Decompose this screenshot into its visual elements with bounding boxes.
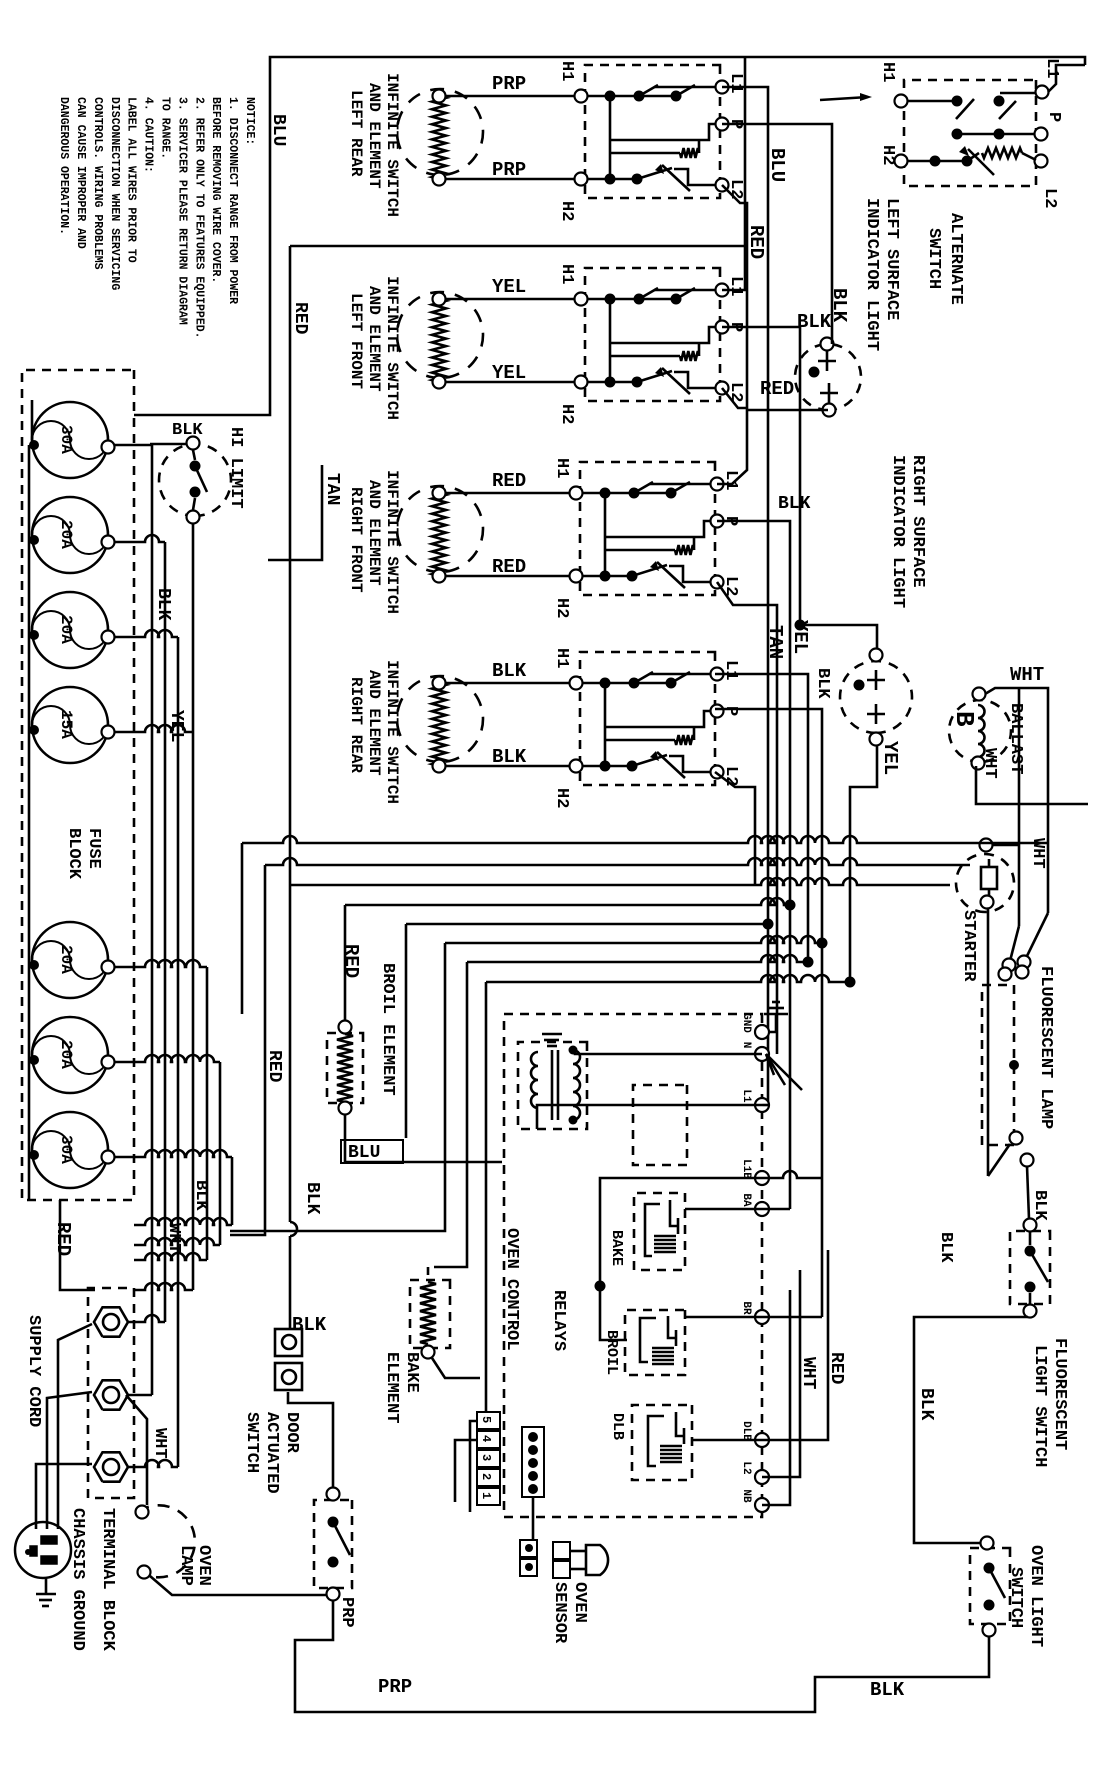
svg-text:RIGHT SURFACE: RIGHT SURFACE — [908, 455, 927, 588]
svg-text:H1: H1 — [552, 458, 571, 478]
svg-text:BAKE: BAKE — [608, 1230, 625, 1266]
svg-text:DLB: DLB — [740, 1421, 752, 1441]
label BALLAST — [1006, 703, 1025, 774]
label BLK right fuse — [191, 1180, 210, 1211]
label H2 right rear — [552, 788, 571, 808]
fuse block box — [22, 370, 134, 1200]
wire lamp right to switch — [988, 909, 1010, 1176]
label YEL right — [789, 620, 811, 654]
svg-text:WHT: WHT — [980, 748, 999, 779]
svg-text:BLK: BLK — [1030, 1190, 1049, 1221]
label PRP wire 2 — [492, 159, 526, 181]
label L2 supply — [1040, 188, 1059, 208]
svg-text:RIGHT REAR: RIGHT REAR — [347, 677, 365, 773]
svg-text:DANGEROUS OPERATION.: DANGEROUS OPERATION. — [57, 97, 70, 235]
text CHASSIS GROUND — [68, 1508, 87, 1651]
svg-text:BLK: BLK — [936, 1232, 955, 1263]
infinite switch left rear — [575, 65, 729, 198]
label WHT ballast right — [980, 748, 999, 779]
text FLUORESCENT LIGHT SWITCH — [1030, 1338, 1069, 1467]
wire fuse4 right — [134, 732, 193, 1290]
wire right front P riser — [717, 521, 790, 1209]
svg-text:BLK: BLK — [916, 1388, 936, 1421]
wire left front L2 — [722, 388, 747, 408]
text NOTICE block — [57, 97, 256, 339]
label L1 left rear — [726, 73, 745, 93]
svg-text:AND ELEMENT: AND ELEMENT — [365, 480, 383, 586]
svg-text:BEFORE REMOVING WIRE COVER.: BEFORE REMOVING WIRE COVER. — [209, 97, 222, 283]
wire BLK bus from left rear P — [722, 124, 832, 344]
svg-text:INDICATOR LIGHT: INDICATOR LIGHT — [862, 198, 881, 351]
label BLK fl2 — [936, 1232, 955, 1263]
oven control box — [504, 1014, 762, 1517]
text TERMINAL BLOCK — [98, 1508, 117, 1652]
wire H1-element right rear — [445, 682, 570, 685]
svg-text:BLK: BLK — [302, 1182, 322, 1215]
wire L1 pin internal — [537, 1105, 762, 1129]
svg-text:BLK: BLK — [813, 668, 832, 699]
wire fuse7 up — [114, 1150, 232, 1225]
oven sensor — [553, 1542, 608, 1578]
fuse 20A at x 535 — [29, 497, 115, 573]
wire bake left — [427, 1267, 430, 1275]
wire L1 pin riser — [762, 1104, 768, 1107]
svg-text:BLK: BLK — [292, 1314, 327, 1336]
label H2 right front — [552, 598, 571, 618]
svg-text:RED: RED — [340, 944, 362, 978]
svg-text:L2: L2 — [1040, 188, 1059, 208]
svg-text:30A: 30A — [57, 425, 75, 454]
svg-text:BAKE: BAKE — [402, 1352, 421, 1393]
label RED left rear — [745, 225, 767, 259]
wire fuse5 up — [114, 960, 207, 1260]
wire L1B riser — [762, 1171, 822, 1178]
svg-text:INFINITE SWITCH: INFINITE SWITCH — [383, 73, 401, 217]
text BAKE ELEMENT — [382, 1352, 421, 1423]
label H1 left rear — [557, 61, 576, 81]
svg-text:DOOR: DOOR — [282, 1412, 301, 1454]
wire left light RED down — [747, 409, 828, 412]
label STARTER — [959, 910, 978, 982]
wire plug to lug3 — [36, 1464, 92, 1529]
svg-text:NOTICE:: NOTICE: — [243, 97, 256, 145]
pin NB oven control — [740, 1489, 769, 1512]
wire left front L1 up — [722, 57, 745, 290]
label H2 left front — [557, 404, 576, 424]
relay BAKE — [634, 1193, 685, 1270]
ballast — [949, 688, 1011, 770]
label L1 right rear — [721, 660, 740, 680]
text INFINITE SWITCH AND ELEMENT RIGHT FRONT — [347, 470, 401, 614]
oven lamp — [136, 1505, 195, 1578]
text LEFT SURFACE INDICATOR LIGHT — [862, 198, 901, 351]
svg-text:CAN CAUSE IMPROPER AND: CAN CAUSE IMPROPER AND — [74, 97, 87, 249]
wire BLU bus — [722, 87, 768, 1105]
wire oven lamp right — [150, 1576, 327, 1595]
label BLK door — [292, 1314, 327, 1336]
fuse 20A at x 1055 — [29, 1017, 115, 1093]
svg-text:BROIL: BROIL — [603, 1330, 620, 1375]
label RED fuse block — [52, 1222, 74, 1256]
hi limit — [159, 437, 231, 524]
svg-text:RED: RED — [492, 470, 526, 492]
wire NB riser — [762, 1290, 790, 1505]
wire PRP door — [295, 1600, 333, 1700]
svg-text:OVEN LIGHT: OVEN LIGHT — [1026, 1545, 1045, 1647]
label L2 right front — [721, 576, 740, 596]
label YEL left col — [166, 710, 186, 742]
label BLU — [766, 148, 788, 182]
svg-text:BA: BA — [740, 1193, 752, 1207]
svg-text:4: 4 — [479, 1435, 493, 1442]
pin L2 oven control — [740, 1461, 769, 1484]
wire RED bus from left rear L2 — [722, 185, 747, 410]
svg-text:RED: RED — [492, 556, 526, 578]
svg-text:20A: 20A — [57, 1040, 75, 1069]
label RED dlb — [826, 1352, 846, 1385]
wire bake right — [432, 1358, 480, 1378]
wire starter to lamp — [993, 844, 1019, 847]
wire YEL bus left front — [722, 327, 800, 625]
svg-text:BLOCK: BLOCK — [64, 828, 83, 880]
svg-text:P: P — [1044, 112, 1063, 122]
transformer oven control — [518, 1042, 587, 1129]
label TAN right — [764, 625, 786, 659]
connector 2pin — [520, 1540, 537, 1576]
fuse 20A at x 960 — [29, 922, 115, 998]
svg-text:H2: H2 — [557, 201, 576, 221]
label BLK bus C — [302, 1182, 322, 1215]
svg-text:P: P — [721, 706, 740, 716]
svg-text:LAMP: LAMP — [176, 1545, 195, 1586]
bake element — [410, 1280, 450, 1359]
svg-text:ALTERNATE: ALTERNATE — [946, 213, 965, 305]
wire L1 main line — [134, 57, 1085, 415]
svg-text:OVEN CONTROL: OVEN CONTROL — [502, 1228, 521, 1350]
label TAN hi limit — [322, 473, 342, 505]
wire DLB internal — [692, 1439, 762, 1442]
label DLB — [609, 1413, 626, 1440]
svg-text:L1: L1 — [726, 276, 745, 296]
svg-text:LIGHT SWITCH: LIGHT SWITCH — [1030, 1345, 1049, 1467]
wire fuse2 up — [114, 535, 165, 1322]
svg-text:GND: GND — [740, 1013, 752, 1033]
label P right rear — [721, 706, 740, 716]
svg-text:TAN: TAN — [322, 473, 342, 505]
svg-text:OVEN: OVEN — [194, 1545, 213, 1586]
label BROIL — [603, 1330, 620, 1375]
pin BA oven control — [740, 1193, 769, 1216]
wire right light feed — [795, 620, 878, 650]
label YEL right light — [879, 741, 901, 775]
svg-text:L2: L2 — [726, 179, 745, 199]
element right front — [397, 486, 483, 583]
svg-text:SWITCH: SWITCH — [924, 228, 943, 289]
relay BROIL — [625, 1310, 685, 1375]
label PRP wire 1 — [492, 73, 526, 95]
wire lamp right 2 — [1027, 1166, 1029, 1219]
svg-text:L2: L2 — [740, 1461, 752, 1474]
svg-text:ELEMENT: ELEMENT — [382, 1352, 401, 1423]
door plunger B — [275, 1363, 302, 1390]
pin BR oven control — [740, 1301, 769, 1324]
wire fuse3 up — [114, 630, 178, 1467]
wire L1 supply entry — [1048, 65, 1085, 92]
wire right rear P riser — [715, 709, 822, 1317]
wire fuse bottom bus — [29, 400, 32, 1200]
svg-text:BALLAST: BALLAST — [1006, 703, 1025, 774]
text INFINITE SWITCH AND ELEMENT RIGHT REAR — [347, 660, 401, 804]
label WHT right fuse — [164, 1223, 183, 1254]
wire H2-element left rear — [445, 178, 575, 181]
svg-text:RED: RED — [826, 1352, 846, 1385]
label RED broil — [340, 944, 362, 978]
label BLK left light — [797, 311, 832, 333]
svg-text:H2: H2 — [557, 404, 576, 424]
svg-text:BLK: BLK — [172, 421, 203, 440]
wire H1-element right front — [445, 492, 570, 495]
svg-text:DLB: DLB — [609, 1413, 626, 1440]
label H1 right rear — [552, 648, 571, 668]
svg-text:BLK: BLK — [492, 746, 527, 768]
wire ballast right — [976, 766, 1088, 804]
svg-text:5: 5 — [479, 1416, 493, 1423]
text RELAYS — [549, 1290, 568, 1351]
wire oven light switch out — [295, 1636, 989, 1712]
svg-text:15A: 15A — [57, 710, 75, 739]
wire right rear L1 riser — [715, 674, 808, 962]
wire bus route F — [230, 936, 828, 1231]
wire door switch feed — [288, 1392, 333, 1487]
svg-text:TERMINAL BLOCK: TERMINAL BLOCK — [98, 1508, 117, 1652]
svg-text:FUSE: FUSE — [84, 828, 103, 869]
svg-text:LEFT FRONT: LEFT FRONT — [347, 293, 365, 389]
infinite switch left front — [575, 268, 729, 401]
svg-text:RED: RED — [264, 1050, 284, 1083]
wire bus route E — [406, 919, 774, 1139]
svg-text:HI LIMIT: HI LIMIT — [226, 427, 245, 509]
label WHT bus — [150, 1428, 169, 1459]
terminal lug 3 — [94, 1452, 128, 1481]
text OVEN LAMP — [176, 1545, 213, 1586]
label H2 alternate switch — [878, 145, 897, 165]
svg-text:DISCONNECTION WHEN SERVICING: DISCONNECTION WHEN SERVICING — [108, 97, 121, 290]
wire starter to lamp 2 — [987, 908, 988, 909]
label BLK hi limit — [172, 421, 203, 440]
svg-text:4. CAUTION:: 4. CAUTION: — [142, 97, 155, 173]
text FLUORESCENT LAMP — [1036, 966, 1055, 1129]
fuse 20A at x 630 — [29, 592, 115, 668]
label WHT l2 — [798, 1357, 818, 1390]
svg-text:YEL: YEL — [492, 276, 526, 298]
svg-text:TO RANGE.: TO RANGE. — [159, 97, 172, 159]
svg-text:PRP: PRP — [378, 1676, 412, 1698]
svg-text:WHT: WHT — [1010, 664, 1044, 686]
svg-text:RIGHT FRONT: RIGHT FRONT — [347, 487, 365, 593]
wire fuse1 up — [114, 445, 152, 1395]
svg-text:1: 1 — [479, 1492, 493, 1499]
svg-text:INDICATOR LIGHT: INDICATOR LIGHT — [888, 455, 907, 608]
svg-text:20A: 20A — [57, 945, 75, 974]
svg-text:3. SERVICER PLEASE RETURN DIAG: 3. SERVICER PLEASE RETURN DIAGRAM — [175, 97, 188, 325]
label RED left light — [760, 378, 794, 400]
svg-text:AND ELEMENT: AND ELEMENT — [365, 286, 383, 392]
wire connector plug out 1 — [470, 1421, 477, 1512]
svg-text:LEFT SURFACE: LEFT SURFACE — [882, 198, 901, 320]
wire H2-element right front — [445, 575, 570, 578]
svg-text:YEL: YEL — [492, 362, 526, 384]
svg-text:L1: L1 — [726, 73, 745, 93]
callout arrow to alternate switch — [820, 93, 872, 101]
text FUSE BLOCK — [64, 828, 103, 880]
svg-text:L2: L2 — [726, 382, 745, 402]
chassis ground symbol — [36, 1578, 56, 1606]
svg-text:BLK: BLK — [870, 1679, 905, 1701]
svg-text:SENSOR: SENSOR — [550, 1582, 569, 1644]
label P left front — [726, 322, 745, 332]
wire L2 WHT riser — [762, 1270, 800, 1477]
svg-text:BLK: BLK — [778, 494, 811, 514]
wire right front L2 — [717, 582, 777, 1054]
wire RED bus to right front L1 — [717, 410, 747, 484]
text BROIL ELEMENT — [378, 963, 397, 1096]
indicator light right surface — [840, 649, 912, 746]
text SUPPLY CORD — [24, 1315, 43, 1427]
svg-text:H2: H2 — [552, 788, 571, 808]
svg-text:SWITCH: SWITCH — [1006, 1567, 1025, 1628]
label L2 left front — [726, 382, 745, 402]
label BLK rr — [813, 668, 832, 699]
svg-text:RED: RED — [290, 302, 310, 335]
fuse 30A at x 440 — [29, 402, 115, 478]
text INFINITE SWITCH AND ELEMENT LEFT REAR — [347, 73, 401, 217]
text ALTERNATE SWITCH — [924, 213, 965, 305]
fuse 15A at x 725 — [29, 687, 115, 763]
wire fuse4 up — [114, 524, 193, 732]
label BLU main — [268, 114, 288, 146]
text HI LIMIT — [226, 427, 245, 509]
label BLK left col — [153, 588, 173, 621]
label L1 left front — [726, 276, 745, 296]
label RED wire 1 — [492, 470, 526, 492]
connector socket — [522, 1427, 544, 1497]
label RED bus B — [264, 1050, 284, 1083]
svg-text:BR: BR — [740, 1301, 752, 1315]
wire hi limit right TAN — [268, 465, 322, 560]
wire bus route A — [242, 836, 1048, 1014]
wire bus route C — [290, 246, 950, 1329]
label BLK rf feed — [778, 494, 811, 514]
wire fuse6 up — [114, 1055, 220, 1245]
wire connector plug out 2 — [455, 1440, 477, 1502]
svg-text:H1: H1 — [878, 62, 897, 82]
element left front — [397, 292, 483, 389]
svg-text:3: 3 — [479, 1454, 493, 1461]
text DOOR ACTUATED SWITCH — [242, 1412, 301, 1494]
wire right rear L2 riser — [715, 772, 755, 885]
svg-text:B: B — [949, 711, 979, 727]
svg-text:BLK: BLK — [153, 588, 173, 621]
label L2 left rear — [726, 179, 745, 199]
svg-text:RED: RED — [52, 1222, 74, 1256]
indicator light left surface — [795, 338, 861, 417]
infinite switch right rear — [570, 652, 724, 785]
svg-text:20A: 20A — [57, 615, 75, 644]
svg-text:WHT: WHT — [798, 1357, 818, 1390]
wire hi limit left — [150, 443, 187, 446]
svg-text:LEFT REAR: LEFT REAR — [347, 90, 365, 177]
svg-text:FLUORESCENT: FLUORESCENT — [1050, 1338, 1069, 1450]
svg-text:RELAYS: RELAYS — [549, 1290, 568, 1351]
svg-text:YEL: YEL — [879, 741, 901, 775]
svg-text:SUPPLY CORD: SUPPLY CORD — [24, 1315, 43, 1427]
svg-text:CONTROLS. WIRING PROBLEMS: CONTROLS. WIRING PROBLEMS — [91, 97, 104, 270]
wire bus route H — [486, 975, 856, 1412]
wire H1-element left rear — [445, 95, 575, 98]
wire plug to lug2 — [47, 1392, 92, 1529]
label BLK wire 2 — [492, 746, 527, 768]
svg-text:BROIL ELEMENT: BROIL ELEMENT — [378, 963, 397, 1096]
svg-text:FLUORESCENT LAMP: FLUORESCENT LAMP — [1036, 966, 1055, 1129]
svg-text:H1: H1 — [557, 61, 576, 81]
svg-text:YEL: YEL — [166, 710, 186, 742]
text INFINITE SWITCH AND ELEMENT LEFT FRONT — [347, 276, 401, 420]
label WHT ballast left — [1010, 664, 1044, 686]
svg-text:WHT: WHT — [150, 1428, 169, 1459]
svg-text:H1: H1 — [552, 648, 571, 668]
terminal lug 1 — [94, 1307, 128, 1336]
element left rear — [397, 89, 483, 186]
ground transformer — [542, 1034, 562, 1046]
svg-text:20A: 20A — [57, 520, 75, 549]
svg-text:30A: 30A — [57, 1135, 75, 1164]
text RIGHT SURFACE INDICATOR LIGHT — [888, 455, 927, 608]
terminal lug 2 — [94, 1380, 128, 1409]
svg-text:PRP: PRP — [492, 159, 526, 181]
wire BR internal — [685, 1316, 762, 1319]
label H1 left front — [557, 264, 576, 284]
ground oven control GND — [764, 1002, 788, 1032]
svg-text:H2: H2 — [552, 598, 571, 618]
wire BR riser — [762, 1316, 822, 1319]
supply cord plug — [15, 1522, 71, 1578]
wire H2-element left front — [445, 381, 575, 384]
svg-text:BLU: BLU — [348, 1143, 380, 1163]
svg-text:AND ELEMENT: AND ELEMENT — [365, 670, 383, 776]
text OVEN LIGHT SWITCH — [1006, 1545, 1045, 1647]
wire bus route B — [230, 858, 970, 1235]
svg-text:N: N — [740, 1042, 752, 1049]
label WHT top right — [1028, 838, 1047, 869]
svg-text:CHASSIS GROUND: CHASSIS GROUND — [68, 1508, 87, 1651]
wire fluorescent switch to oven light switch — [914, 1317, 1028, 1543]
wire fuse block to terminal — [60, 1200, 95, 1290]
wire ballast left WHT — [985, 688, 1048, 961]
text OVEN CONTROL — [502, 1228, 521, 1350]
pin L1B oven control — [740, 1159, 769, 1185]
svg-text:INFINITE SWITCH: INFINITE SWITCH — [383, 276, 401, 420]
pin N oven control — [740, 1042, 769, 1061]
wire connector to sensor — [532, 1497, 535, 1540]
label P right front — [721, 516, 740, 526]
svg-text:BLK: BLK — [797, 311, 832, 333]
label PRP door — [337, 1597, 356, 1628]
svg-text:LABEL ALL WIRES PRIOR TO: LABEL ALL WIRES PRIOR TO — [125, 97, 138, 263]
svg-text:H1: H1 — [557, 264, 576, 284]
label BLU broil — [341, 1140, 403, 1163]
wire bus route D — [345, 898, 796, 1020]
text OVEN SENSOR — [550, 1582, 589, 1644]
